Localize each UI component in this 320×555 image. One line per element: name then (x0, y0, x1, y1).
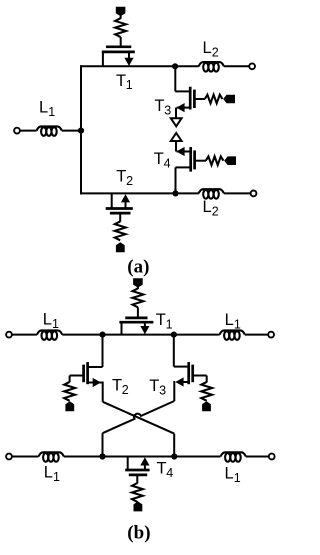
drain bias resistor of T1 (fig a) (115, 18, 126, 37)
node left bottom rail (fig b) (99, 453, 105, 459)
svg-text:L: L (39, 98, 48, 116)
T3 gate lead (fig a) (195, 98, 205, 100)
drain bias resistor of T1 (fig b) (133, 288, 144, 307)
output terminal bottom (fig a) (251, 191, 257, 197)
node L1-bus junction (fig a) (78, 128, 84, 134)
input terminal bottom-left (fig b) (6, 454, 12, 460)
svg-text:(a): (a) (127, 256, 149, 277)
inductor L2 top (fig a) (199, 62, 224, 71)
T3 cross wire with hop (fig b) (103, 381, 175, 457)
transistor T2 (fig b) (84, 362, 88, 384)
wire up-arrow to T4 source (fig a) (175, 141, 177, 152)
input terminal (fig a) (14, 128, 20, 134)
svg-text:1: 1 (126, 78, 133, 92)
wire node to T3 drain (fig a) (175, 66, 190, 91)
T2 cross wire (fig b) (103, 382, 175, 457)
svg-text:L: L (225, 311, 234, 329)
svg-text:4: 4 (164, 156, 171, 170)
svg-text:1: 1 (234, 471, 241, 485)
T2 drain lead (fig b) (88, 335, 102, 367)
label T2 (fig b) (112, 376, 129, 396)
transistor T3 (fig b) (189, 362, 193, 384)
node T4-rail junction (fig a) (172, 190, 178, 196)
wire input to L1 (fig a) (20, 130, 37, 132)
inductor L1 (fig a) (37, 126, 62, 135)
inductor L1 top-right (fig b) (220, 330, 245, 339)
bias tag of T4 (fig a) (224, 156, 236, 165)
label T4 (fig a) (154, 150, 171, 170)
wire L1 to bus (fig a) (62, 130, 81, 132)
svg-text:3: 3 (159, 384, 166, 398)
gate bias resistor of T2 (fig a) (115, 221, 126, 240)
T4 source lead (fig a) (176, 147, 190, 156)
svg-text:L: L (43, 310, 52, 328)
node T3 branch (fig a) (172, 63, 178, 69)
label T3 (fig b) (149, 377, 166, 397)
T2 gate lead (fig b) (70, 376, 83, 383)
svg-text:T: T (116, 167, 126, 185)
bias tag of T2 (fig a) (116, 242, 125, 252)
svg-text:1: 1 (48, 105, 55, 119)
node right top rail (fig b) (171, 332, 177, 338)
wire resistor to T1 gate (fig a) (120, 37, 122, 47)
gate bias resistor of T3 (fig b) (201, 382, 212, 401)
T3 source lead with arrow (fig b) (175, 377, 188, 386)
connector arrow up (fig a) (171, 133, 182, 141)
output terminal top-right (fig b) (268, 332, 274, 338)
bias tag of T4 (fig b) (134, 501, 143, 511)
T2 source lead with arrow (fig b) (88, 378, 103, 387)
label L1 bottom-left (fig b) (44, 464, 60, 484)
connector arrow down (fig a) (171, 118, 182, 126)
caption (b) (127, 523, 150, 544)
bias tag of T3 (fig a) (223, 95, 235, 104)
T4 gate stub (fig b) (136, 475, 138, 484)
inductor L1 top-left (fig b) (37, 330, 62, 339)
svg-text:T: T (154, 150, 164, 168)
top rail wire (fig b) (12, 334, 268, 336)
transistor T4 (fig a) (191, 147, 195, 172)
svg-text:(b): (b) (127, 523, 150, 544)
label L1 top-left (fig b) (43, 310, 59, 330)
node left top rail (fig b) (99, 332, 105, 338)
svg-text:L: L (203, 198, 212, 216)
label L2 top (fig a) (203, 39, 219, 59)
svg-text:1: 1 (234, 317, 241, 331)
transistor T1 (fig a) (102, 47, 135, 67)
transistor T1 (fig b) (119, 318, 153, 335)
label T4 (fig b) (157, 460, 174, 480)
svg-text:L: L (203, 39, 212, 57)
T4 gate lead (fig a) (196, 160, 206, 162)
svg-text:2: 2 (122, 383, 129, 397)
inductor L1 bottom-right (fig b) (221, 452, 246, 461)
svg-text:2: 2 (126, 174, 133, 188)
transistor T2 (fig a) (106, 193, 133, 213)
inductor L2 bottom (fig a) (199, 189, 224, 198)
svg-text:4: 4 (166, 466, 173, 480)
transistor T4 (fig b) (125, 457, 149, 475)
svg-text:1: 1 (166, 317, 173, 331)
output terminal bottom-right (fig b) (269, 454, 275, 460)
svg-text:1: 1 (53, 470, 60, 484)
label L1 bottom-right (fig b) (225, 465, 241, 485)
T4 drain lead (fig a) (176, 167, 191, 193)
svg-text:T: T (149, 377, 159, 395)
svg-text:T: T (154, 97, 164, 115)
svg-text:1: 1 (52, 317, 59, 331)
output terminal top (fig a) (249, 63, 255, 69)
power supply tag VDD (fig b) (133, 278, 143, 289)
caption (a) (127, 256, 149, 277)
svg-text:2: 2 (212, 46, 219, 60)
label L1 (fig a) (39, 98, 55, 118)
svg-text:T: T (157, 460, 167, 478)
gate bias resistor of T4 (fig a) (206, 156, 224, 165)
label T1 (fig b) (156, 311, 173, 331)
T3 source lead (fig a) (176, 103, 190, 118)
T2 gate stub (fig a) (119, 213, 121, 222)
power supply tag VDD (fig a) (116, 7, 126, 19)
label T1 (fig a) (116, 72, 133, 92)
wire resistor to T1 gate (fig b) (137, 307, 139, 318)
input terminal top-left (fig b) (6, 332, 12, 338)
bus wire left (fig a) (80, 65, 82, 194)
top rail wire (fig a) (80, 65, 249, 67)
gate bias resistor of T2 (fig b) (64, 382, 75, 401)
gate bias resistor of T4 (fig b) (132, 483, 143, 502)
bias tag of T2 (fig b) (65, 401, 74, 411)
inductor L1 bottom-left (fig b) (39, 452, 64, 461)
label T3 (fig a) (154, 97, 171, 117)
T3 gate lead (fig b) (194, 376, 207, 383)
svg-text:L: L (225, 465, 234, 483)
bottom rail wire (fig b) (12, 456, 269, 458)
label T2 (fig a) (116, 167, 133, 187)
T3 drain lead (fig b) (174, 335, 188, 367)
svg-text:3: 3 (164, 103, 171, 117)
transistor T3 (fig a) (190, 87, 194, 110)
svg-text:T: T (156, 311, 166, 329)
bottom rail wire (fig a) (80, 192, 251, 194)
label L2 bottom (fig a) (203, 198, 219, 218)
svg-text:L: L (44, 464, 53, 482)
svg-text:T: T (116, 72, 126, 90)
label L1 top-right (fig b) (225, 311, 241, 331)
node right bottom rail (fig b) (171, 453, 177, 459)
gate bias resistor of T3 (fig a) (205, 95, 223, 104)
svg-text:2: 2 (212, 205, 219, 219)
bias tag of T3 (fig b) (202, 401, 211, 411)
svg-text:T: T (112, 376, 122, 394)
